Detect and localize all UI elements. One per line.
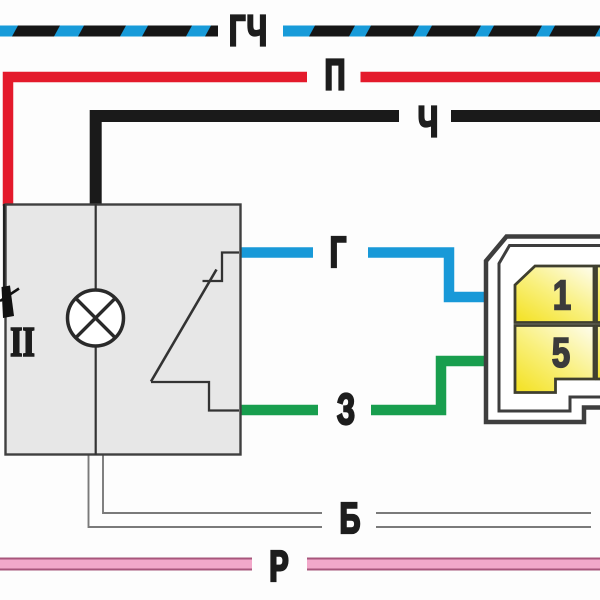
connector X1 outer shell	[486, 237, 600, 423]
pin number 5	[553, 338, 569, 367]
pin number 1	[555, 281, 570, 310]
label Р	[271, 551, 287, 581]
wire inside box: lamp feed vertical	[95, 204, 97, 455]
wire Б white hollow outline, elbow from box bottom, left segment	[89, 455, 323, 527]
label Г	[332, 237, 346, 267]
label II switch position	[12, 328, 34, 356]
label ГЧ	[231, 15, 265, 45]
wire Г blue, from switch box, left segment	[239, 247, 313, 258]
switch lever actuator at left	[3, 204, 5, 289]
connector X1 inner contour	[499, 246, 600, 412]
wire З green, from switch box, left segment	[239, 405, 318, 416]
wire ГЧ blue/black striped, right segment	[283, 26, 600, 37]
wire Ч black, left segment with corner down to switch box	[96, 116, 399, 206]
switch moving arm	[151, 270, 217, 382]
switch lower contact to green wire	[151, 382, 239, 411]
wire П red, right segment	[361, 72, 600, 83]
switch box S1 housing	[6, 205, 241, 455]
label Ч	[419, 106, 436, 136]
connector pin cell 5	[515, 326, 594, 393]
connector pin cell, next column sliver bottom	[597, 326, 600, 380]
switch fixed contact to blue wire	[203, 253, 240, 282]
wire Б white hollow outline, right segment	[376, 513, 591, 527]
wire Р pink, left segment	[0, 558, 252, 571]
wire ГЧ black stripes	[12, 26, 600, 37]
label Б	[342, 503, 360, 533]
lamp HL illumination bulb	[68, 290, 124, 346]
connector pin cell 1	[515, 266, 594, 323]
wire Ч black, right segment	[451, 110, 600, 122]
wire Г blue, right segment into connector	[368, 253, 486, 298]
label З	[338, 393, 354, 424]
wire Р pink, right segment	[307, 558, 600, 571]
wire ГЧ blue/black striped, left segment	[0, 26, 218, 37]
label П	[327, 59, 344, 89]
wire З green, right segment into connector	[371, 361, 486, 410]
connector pin cell, next column sliver top	[597, 266, 600, 323]
wire П red, left segment with corner down to switch box	[8, 77, 307, 206]
